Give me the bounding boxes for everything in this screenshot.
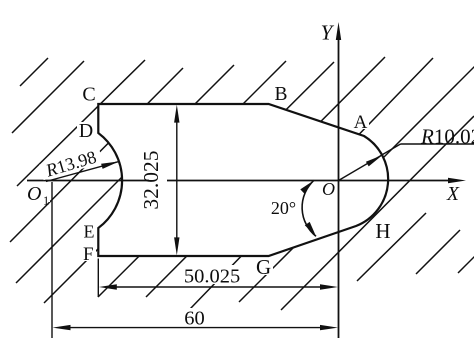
svg-text:O: O (322, 179, 335, 199)
hatch line 3 (through C) (17, 60, 145, 186)
hatch line 8 (146, 57, 385, 297)
hatch line 11 (281, 116, 474, 310)
extension line below F (97, 259, 99, 298)
node label E (81, 224, 97, 239)
node label C (81, 86, 98, 102)
hatch line 1 (20, 58, 48, 86)
hatch line 5 (16, 65, 234, 283)
extension line below O1 (51, 182, 53, 338)
svg-text:E: E (84, 222, 95, 242)
hatch line 13 (416, 230, 460, 274)
hatch line 14 (458, 255, 474, 273)
node label A (352, 114, 369, 129)
hatch line 2 (12, 61, 84, 133)
svg-text:D: D (79, 120, 93, 142)
dim line 50.025 (105, 286, 331, 288)
svg-text:1: 1 (43, 194, 49, 208)
svg-text:50.025: 50.025 (184, 266, 240, 288)
svg-text:B: B (274, 84, 287, 105)
svg-text:32.025: 32.025 (139, 150, 163, 209)
node label F (81, 246, 96, 261)
node label D (77, 122, 95, 138)
X axis (27, 180, 449, 182)
hatch line 10 (239, 65, 474, 302)
svg-text:A: A (354, 112, 368, 133)
svg-text:R10.02: R10.02 (420, 125, 474, 149)
svg-text:G: G (256, 255, 271, 279)
hatch line 4 (10, 68, 183, 242)
node label B (273, 87, 289, 101)
dim line 32.025 (176, 111, 178, 249)
node label G (255, 259, 273, 275)
svg-text:X: X (446, 184, 460, 205)
part outline C-B-A-arc-H-G-F-E-arc-D (98, 104, 388, 256)
hatch line 9 (190, 58, 433, 309)
svg-text:O: O (27, 183, 41, 205)
hatch line 12 (357, 213, 426, 281)
value R13.98 (39, 145, 104, 182)
svg-text:C: C (82, 84, 95, 106)
value 20 deg (267, 200, 301, 215)
value 50.025 (182, 265, 242, 284)
hatch line 6 (44, 61, 286, 303)
value 32.025 (149, 148, 167, 212)
leader R10.02 (339, 144, 401, 181)
svg-text:60: 60 (184, 308, 205, 330)
node label H (374, 223, 392, 239)
angle arc 20 deg (302, 180, 316, 236)
hatch line 7 (98, 62, 334, 297)
Y axis (338, 40, 340, 338)
value 60 (182, 308, 208, 326)
svg-text:H: H (375, 219, 390, 243)
svg-text:20°: 20° (271, 198, 296, 218)
dim line 60 (59, 327, 332, 329)
leader R13.98 (46, 161, 119, 181)
origin label O1 (26, 185, 50, 202)
svg-text:F: F (83, 244, 94, 265)
origin label O (321, 182, 336, 196)
